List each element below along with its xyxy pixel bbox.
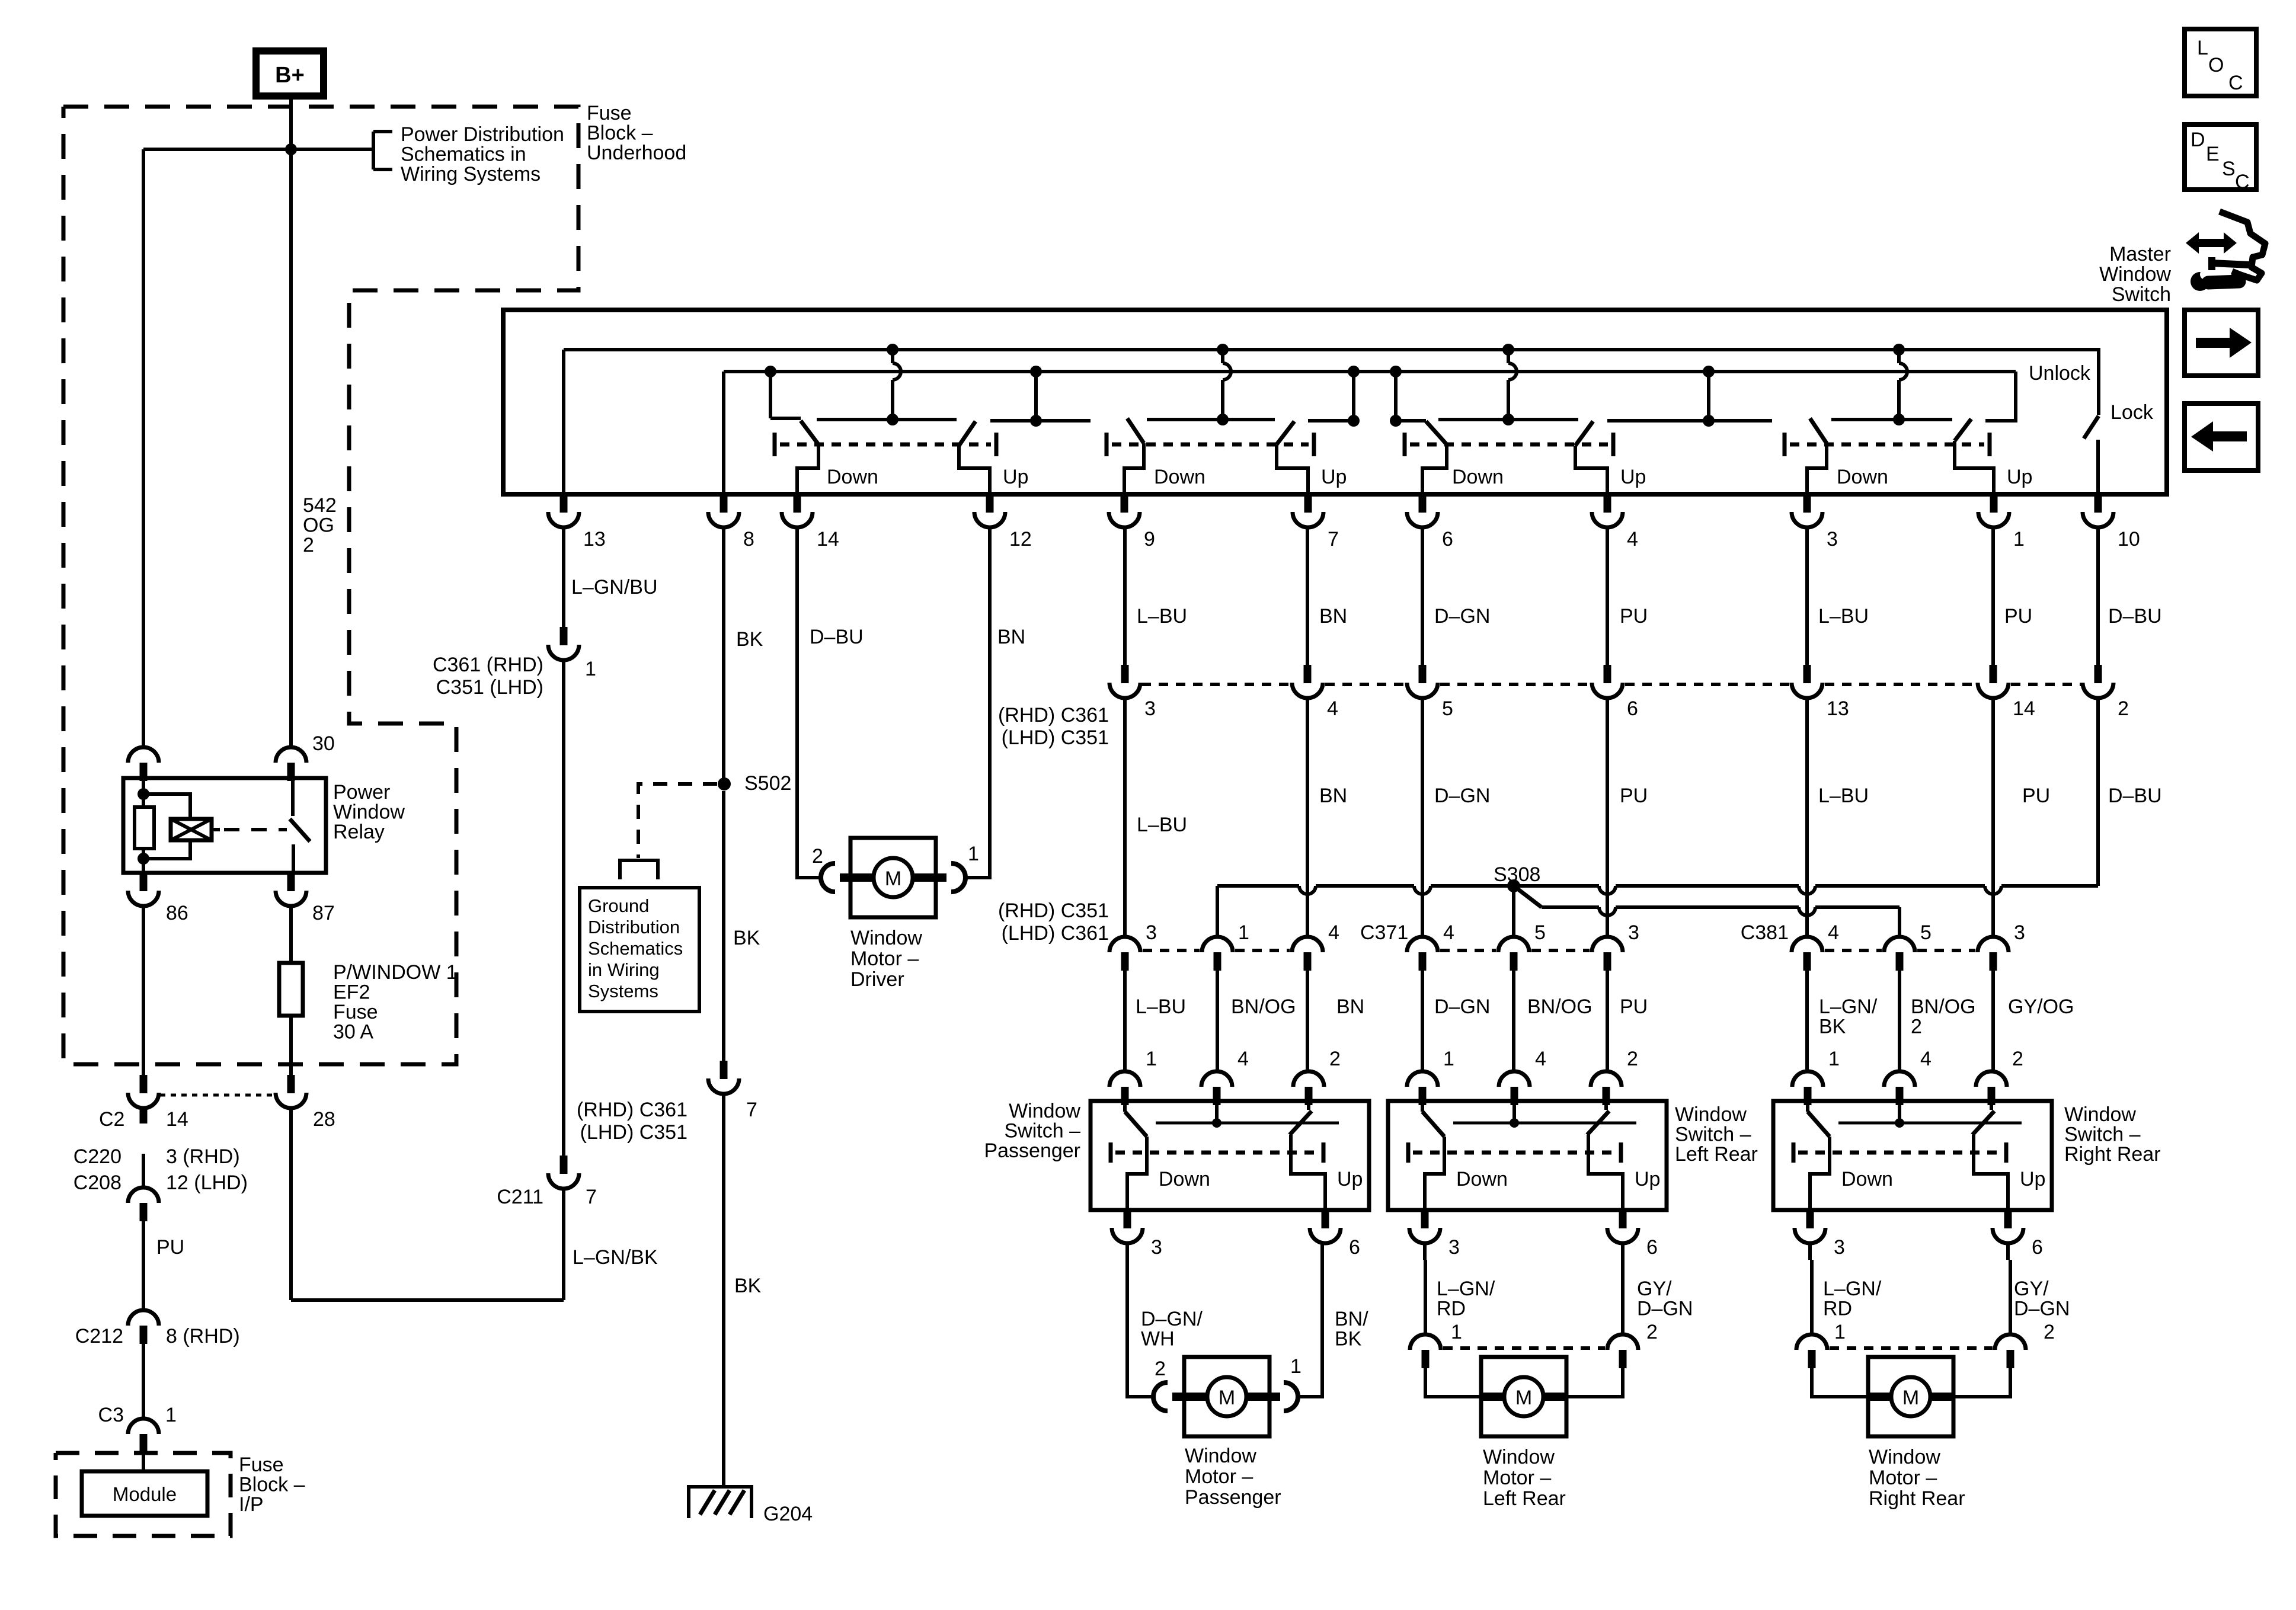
svg-text:PU: PU: [2004, 605, 2032, 628]
svg-text:(RHD) C361: (RHD) C361: [998, 704, 1109, 726]
svg-text:2: 2: [2118, 697, 2129, 720]
svg-text:D–BU: D–BU: [2108, 605, 2162, 628]
switch lock arm: [2084, 416, 2099, 438]
connector master switch pin 7: [1293, 494, 1323, 527]
label switch-in pin 1 at 2400: [1443, 1048, 1454, 1070]
label PU (pin4): [1620, 605, 1648, 628]
svg-text:10: 10: [2118, 528, 2140, 550]
label row3 pin 1 at 2054: [1238, 921, 1249, 944]
labels left rear wires: [1437, 1278, 1693, 1343]
wire pin 86 down: [142, 906, 145, 1075]
svg-text:BK: BK: [733, 927, 760, 949]
svg-text:13: 13: [1827, 697, 1849, 720]
icon right arrow box: [2185, 310, 2258, 376]
wire passenger pin6 to motor: [1297, 1243, 1322, 1397]
wire bus1 left end to pin 13: [562, 350, 565, 494]
label switch-in pin 4 at 2053: [1237, 1048, 1249, 1070]
dashed branch S502 to ground distribution: [638, 784, 717, 858]
svg-text:M: M: [885, 868, 901, 890]
svg-text:D–GN/: D–GN/: [1141, 1308, 1203, 1330]
wire L-BU row2 to row3 (3049): [1805, 698, 1809, 937]
label 1 (passenger motor): [1290, 1355, 1302, 1378]
svg-text:BK: BK: [1819, 1016, 1846, 1038]
svg-text:Distribution: Distribution: [588, 917, 680, 937]
svg-text:G204: G204: [763, 1503, 813, 1525]
svg-text:14: 14: [166, 1108, 188, 1131]
connector row2 pin 6: [1592, 665, 1623, 698]
svg-text:Motor –: Motor –: [1869, 1467, 1937, 1489]
dotted link between C2-14 and 28: [160, 1094, 275, 1097]
wire bus2 riser 3: [1352, 372, 1355, 421]
svg-text:Window: Window: [2099, 263, 2171, 286]
label row2 pin 4: [1327, 697, 1338, 720]
svg-text:6: 6: [1627, 697, 1638, 720]
connector row3 pin 4 at 2400: [1407, 937, 1438, 971]
window motor driver box: [850, 838, 936, 917]
svg-text:6: 6: [1646, 1236, 1658, 1259]
motor window right rear: [1796, 1260, 2026, 1436]
svg-text:Window: Window: [1185, 1445, 1256, 1467]
label C220: [73, 1145, 121, 1168]
wire C211 riser: [562, 1188, 565, 1300]
node bus1 tap 3: [1502, 344, 1514, 356]
label Unlock: [2029, 362, 2091, 385]
svg-text:12: 12: [1009, 528, 1032, 550]
node coil bottom: [137, 853, 149, 865]
svg-text:Up: Up: [1635, 1168, 1660, 1190]
wire row3 to lower row at 2400: [1421, 970, 1424, 1072]
svg-text:L–BU: L–BU: [1818, 785, 1869, 807]
label D-BU 2: [2108, 785, 2162, 807]
wire B+ vertical to pin 30: [289, 149, 293, 748]
wire bus1 riser 2 lower: [1221, 380, 1224, 420]
svg-text:Down: Down: [1837, 466, 1888, 488]
svg-text:86: 86: [166, 902, 188, 924]
bar right-rear mid (bus1 fed): [1831, 414, 1952, 425]
svg-text:PU: PU: [156, 1236, 184, 1259]
switch master left-rear window (Down/Up): [1405, 421, 1646, 494]
label master window switch: [2099, 243, 2171, 306]
label row3 pin 3 at 3363: [2014, 921, 2025, 944]
svg-text:L–BU: L–BU: [1818, 605, 1869, 628]
wire bus2 riser 1: [769, 372, 772, 418]
wire row3 to lower row at 1898: [1123, 970, 1127, 1072]
svg-text:I/P: I/P: [239, 1493, 264, 1516]
label 2 (passenger motor): [1155, 1358, 1166, 1380]
wire master pin to row2 at 2712: [1606, 527, 1609, 665]
svg-text:BN: BN: [1319, 605, 1347, 628]
icon master window switch (arrows and wrench): [2186, 212, 2265, 291]
wire row3 to lower row at 3363: [1991, 970, 1995, 1072]
label (LHD) C361: [1002, 922, 1109, 945]
connector C2 pin 14: [128, 1075, 159, 1108]
label C211: [497, 1186, 543, 1208]
svg-text:13: 13: [583, 528, 606, 550]
svg-text:Down: Down: [1841, 1168, 1893, 1190]
wire row3 to lower row at 2054: [1216, 970, 1219, 1072]
svg-text:D–GN: D–GN: [2014, 1298, 2070, 1320]
svg-text:3: 3: [1448, 1236, 1460, 1259]
connector master switch pin 10: [2083, 494, 2113, 527]
svg-text:Schematics in: Schematics in: [401, 143, 526, 166]
motor window left rear: [1410, 1260, 1638, 1436]
label D-GN (lr): [1434, 996, 1490, 1018]
svg-text:L–GN/BU: L–GN/BU: [571, 576, 658, 598]
svg-text:9: 9: [1144, 528, 1155, 550]
label pin 7: [1328, 528, 1339, 550]
wire hop over bus2 at x=1506: [893, 363, 901, 380]
wire row3 to lower row at 2712: [1606, 970, 1609, 1072]
switch box window switch passenger: [1091, 1101, 1369, 1259]
wire pin10 riser to bus right end: [2096, 697, 2100, 886]
label PU (pin1): [2004, 605, 2032, 628]
wire lock output: [2096, 440, 2100, 494]
label (LHD) C351 row: [580, 1121, 687, 1144]
svg-text:L–GN/BK: L–GN/BK: [573, 1246, 658, 1269]
bar left-rear mid (bus1 fed): [1438, 414, 1578, 425]
label L-GN/BK (rr): [1819, 996, 1878, 1038]
connector row2 pin 13: [1792, 665, 1822, 698]
svg-text:3 (RHD): 3 (RHD): [166, 1145, 240, 1168]
label C381: [1741, 921, 1789, 944]
svg-text:C381: C381: [1741, 921, 1789, 944]
svg-text:Motor –: Motor –: [1185, 1465, 1253, 1488]
battery feed B+ terminal: [256, 51, 324, 96]
connector row2 pin 3: [1109, 665, 1140, 698]
node bus1 tap 4: [1893, 344, 1905, 356]
svg-text:Wiring Systems: Wiring Systems: [401, 163, 541, 185]
svg-text:2: 2: [2012, 1048, 2023, 1070]
bar leftrear-up/rightrear-down fixed: [1607, 415, 1772, 427]
svg-text:Window: Window: [1009, 1100, 1080, 1122]
svg-text:6: 6: [2032, 1236, 2043, 1259]
svg-text:Window: Window: [333, 801, 405, 824]
svg-text:3: 3: [2014, 921, 2025, 944]
wire master pin to row2 at 3540: [2096, 527, 2100, 665]
dashed connector line C381: [1825, 949, 1975, 952]
label BN (pass): [1336, 996, 1364, 1018]
label 7 (C211): [586, 1186, 597, 1208]
svg-text:Master: Master: [2109, 243, 2171, 265]
svg-text:1: 1: [1238, 921, 1249, 944]
node S308: [1507, 879, 1520, 892]
label pin 1: [2013, 528, 2025, 550]
label D-BU: [810, 626, 864, 648]
svg-text:2: 2: [812, 845, 823, 868]
motor driver armature: [840, 858, 946, 897]
svg-text:Left Rear: Left Rear: [1483, 1487, 1566, 1510]
resistor relay coil resistor: [135, 807, 154, 849]
wire bus2 riser 5: [1707, 372, 1710, 421]
connector master switch pin 13: [548, 494, 579, 527]
svg-text:Ground: Ground: [588, 895, 649, 916]
svg-text:Up: Up: [1620, 466, 1646, 488]
wire B+ down to junction: [289, 96, 293, 149]
label 12 (LHD): [166, 1172, 248, 1194]
label L-BU (pass): [1136, 996, 1186, 1018]
svg-text:GY/OG: GY/OG: [2008, 996, 2074, 1018]
svg-text:2: 2: [1646, 1321, 1658, 1343]
connector switch-in pin 4 at 3205: [1884, 1071, 1915, 1105]
connector row3 pin 3 at 3363: [1978, 937, 2009, 971]
label C361 (RHD): [433, 654, 543, 676]
node bus2 tap 1: [765, 366, 776, 377]
wire bus down to row3 pin1 (left end): [1216, 886, 1219, 937]
wire L-BU row2 to row3 (1897): [1123, 698, 1127, 937]
dashed connector line row C351/C361: [1825, 683, 1975, 686]
svg-text:2: 2: [1911, 1016, 1922, 1038]
node bus2 tap 4: [1390, 366, 1402, 377]
svg-text:C: C: [2228, 72, 2243, 94]
wire bus1 riser 4 upper: [1897, 350, 1901, 363]
svg-text:PU: PU: [1620, 996, 1648, 1018]
wire lr pin3 stub: [1423, 1243, 1427, 1260]
svg-text:4: 4: [1828, 921, 1839, 944]
svg-text:PU: PU: [1620, 785, 1648, 807]
wire row3 to lower row at 2206: [1306, 970, 1309, 1072]
bar left-rear down feed: [1390, 415, 1426, 427]
dashed connector line row C351/C361: [2011, 683, 2081, 686]
svg-text:Down: Down: [1456, 1168, 1508, 1190]
label 2 (driver motor): [812, 845, 823, 868]
connector row3 pin 4 at 3049: [1792, 937, 1822, 971]
svg-text:1: 1: [2013, 528, 2025, 550]
wire coil bypass top: [143, 794, 190, 819]
label pin 86: [166, 902, 188, 924]
label BK (pin8): [736, 628, 763, 651]
label window switch right rear: [2064, 1103, 2161, 1166]
svg-text:Block –: Block –: [239, 1474, 305, 1496]
svg-text:12 (LHD): 12 (LHD): [166, 1172, 248, 1194]
svg-text:1: 1: [585, 658, 596, 680]
wire PU segment: [142, 1221, 145, 1311]
label window switch passenger: [984, 1100, 1080, 1162]
wire passenger pin3 to motor: [1127, 1243, 1155, 1397]
label 542 OG 2 wire: [303, 494, 337, 556]
svg-text:7: 7: [586, 1186, 597, 1208]
label 3 (RHD): [166, 1145, 240, 1168]
svg-text:C208: C208: [73, 1172, 121, 1194]
connector row2 pin 2: [2083, 665, 2113, 698]
svg-text:Fuse: Fuse: [333, 1001, 378, 1023]
connector passenger motor terminal 2: [1153, 1382, 1168, 1411]
label S308: [1494, 863, 1540, 886]
svg-text:7: 7: [1328, 528, 1339, 550]
svg-text:Down: Down: [827, 466, 878, 488]
switch master passenger window (Down/Up): [1107, 418, 1347, 494]
label power window relay: [333, 781, 405, 843]
svg-text:Passenger: Passenger: [984, 1140, 1080, 1162]
svg-text:(LHD) C351: (LHD) C351: [1002, 726, 1109, 749]
connector master switch pin 9: [1109, 494, 1140, 527]
wire pin12 down to motor: [964, 527, 990, 878]
label C3: [98, 1404, 124, 1426]
svg-text:Power: Power: [333, 781, 390, 804]
bus S308 horizontal: [1217, 886, 2098, 894]
connector pin 86: [128, 873, 159, 906]
connector pin 87: [276, 873, 306, 906]
label 7 (BK row): [746, 1099, 757, 1121]
svg-text:6: 6: [1349, 1236, 1360, 1259]
wire second bus down to C381 pin5: [1898, 907, 1901, 937]
switch box window switch right rear: [1773, 1101, 2052, 1259]
wire BN row2 to row3 (2206): [1306, 698, 1309, 937]
label pin 87: [312, 902, 335, 924]
svg-text:Fuse: Fuse: [587, 102, 632, 124]
wire coil bottom: [142, 849, 145, 873]
svg-text:2: 2: [303, 534, 314, 556]
ground distribution box: [580, 888, 699, 1012]
wire row3 to lower row at 3049: [1805, 970, 1809, 1072]
label PU 2 (3363): [2022, 785, 2050, 807]
label pin 10: [2118, 528, 2140, 550]
connector C220/C208: [128, 1188, 159, 1221]
connector switch-in pin 1 at 1898: [1109, 1071, 1140, 1105]
connector master switch pin 3: [1792, 494, 1822, 527]
switch master driver window (Down/Up): [775, 421, 1028, 494]
label row3 pin 5 at 3205: [1920, 921, 1932, 944]
wire D-GN row2 to row3 (2400): [1421, 698, 1424, 937]
bus wire lower (bus2): [724, 370, 2016, 373]
svg-text:P/WINDOW 1: P/WINDOW 1: [333, 961, 458, 984]
label BN (pin12): [997, 626, 1025, 648]
node bus1 tap 1: [887, 344, 898, 356]
svg-text:4: 4: [1443, 921, 1454, 944]
wire bus2 left end to pin 8: [722, 372, 725, 494]
label pin 3: [1827, 528, 1838, 550]
bracket for power distribution note: [373, 132, 392, 169]
wire C3 into module: [142, 1452, 145, 1471]
label 1: [165, 1404, 177, 1426]
svg-text:1: 1: [1146, 1048, 1157, 1070]
fuse P/WINDOW 1 EF2 30A: [279, 963, 303, 1016]
label BN 2: [1319, 785, 1347, 807]
connector master switch pin 14: [782, 494, 813, 527]
svg-text:C220: C220: [73, 1145, 121, 1168]
svg-text:30 A: 30 A: [333, 1021, 373, 1044]
svg-text:5: 5: [1920, 921, 1932, 944]
wire PU row2 to row3 (3363): [1991, 698, 1995, 937]
connector row3 pin 1 at 2054: [1202, 937, 1233, 971]
connector C211 pin 7: [548, 1156, 579, 1189]
svg-text:2: 2: [1155, 1358, 1166, 1380]
wire left branch horizontal: [143, 148, 291, 151]
label pin 9: [1144, 528, 1155, 550]
svg-text:BK: BK: [736, 628, 763, 651]
svg-text:BN: BN: [1336, 996, 1364, 1018]
wire bus1 riser 3 upper: [1507, 350, 1510, 363]
svg-text:Down: Down: [1159, 1168, 1210, 1190]
wire row3 to lower row at 2554: [1512, 970, 1515, 1072]
wire hop over bus2 at x=2063: [1223, 363, 1231, 380]
wire coil to link stub: [212, 828, 220, 831]
label switch-in pin 1 at 1898: [1146, 1048, 1157, 1070]
svg-text:Motor –: Motor –: [850, 948, 919, 970]
connector row3 pin 4 at 2206: [1292, 937, 1323, 971]
wire coil bypass bottom: [143, 840, 190, 859]
node S502 splice: [718, 777, 731, 790]
label (RHD) C351: [998, 900, 1109, 922]
svg-text:Switch: Switch: [2112, 283, 2171, 306]
wire BK to ground: [722, 1094, 725, 1487]
svg-text:14: 14: [2013, 697, 2035, 720]
connector master switch pin 1: [1978, 494, 2009, 527]
bar driver mid (bus1 fed): [817, 414, 957, 425]
svg-text:Window: Window: [1675, 1103, 1747, 1126]
label row3 pin 3 at 2712: [1628, 921, 1639, 944]
label row3 pin 4 at 2400: [1443, 921, 1454, 944]
svg-text:BN/OG: BN/OG: [1911, 996, 1976, 1018]
relay solenoid coil box with X: [171, 819, 212, 840]
svg-text:542: 542: [303, 494, 337, 517]
svg-text:7: 7: [746, 1099, 757, 1121]
node junction at power-distribution tap: [285, 143, 297, 155]
svg-text:(RHD) C351: (RHD) C351: [998, 900, 1109, 922]
label BN/OG (pass): [1231, 996, 1296, 1018]
connector C3 pin 1: [128, 1419, 159, 1452]
bus S308 second horizontal: [1542, 907, 1900, 916]
wire bus1 riser 2 upper: [1221, 350, 1224, 363]
label D-GN (pin6): [1434, 605, 1490, 628]
svg-text:GY/: GY/: [1637, 1278, 1672, 1300]
label switch-in pin 2 at 2208: [1329, 1048, 1341, 1070]
svg-text:4: 4: [1627, 528, 1638, 550]
wire master pin to row2 at 3049: [1805, 527, 1809, 665]
svg-text:Module: Module: [113, 1483, 177, 1505]
svg-text:Relay: Relay: [333, 821, 385, 843]
wire master pin to row2 at 2206: [1306, 527, 1309, 665]
wire relay output to pin 87: [292, 844, 295, 873]
label (LHD) C351 mid: [1002, 726, 1109, 749]
svg-text:L: L: [2197, 37, 2208, 59]
wire segment to C220: [142, 1154, 145, 1188]
connector pin 28: [276, 1075, 306, 1108]
label GY/OG (rr): [2008, 996, 2074, 1018]
svg-text:L–GN/: L–GN/: [1819, 996, 1878, 1018]
wire bus1 riser 4 lower: [1897, 380, 1901, 420]
svg-text:D–BU: D–BU: [810, 626, 864, 648]
window motor passenger box: [1184, 1357, 1269, 1436]
connector switch-in pin 2 at 2710: [1591, 1071, 1622, 1105]
connector driver motor terminal 1: [951, 863, 965, 892]
wire bus1 riser 1 lower: [891, 380, 894, 420]
svg-text:RD: RD: [1823, 1298, 1852, 1320]
svg-text:1: 1: [1828, 1048, 1840, 1070]
label Module: [113, 1483, 177, 1505]
label row2 pin 14: [2013, 697, 2035, 720]
relay switch arm: [290, 819, 310, 841]
wire to C3: [142, 1343, 145, 1419]
wire PU row2 to row3 (2712): [1606, 698, 1609, 937]
bar passenger mid (bus1 fed): [1147, 414, 1275, 425]
svg-text:Up: Up: [2007, 466, 2032, 488]
svg-text:Window: Window: [2064, 1103, 2136, 1126]
svg-text:5: 5: [1534, 921, 1546, 944]
svg-text:C2: C2: [99, 1108, 124, 1131]
svg-text:Passenger: Passenger: [1185, 1486, 1281, 1509]
wire fuse down: [289, 1016, 293, 1075]
svg-text:BN: BN: [997, 626, 1025, 648]
svg-text:Driver: Driver: [850, 968, 904, 991]
svg-text:WH: WH: [1141, 1328, 1175, 1350]
connector switch-in pin 2 at 2208: [1293, 1071, 1324, 1105]
label C371: [1360, 921, 1408, 944]
wire hop over bus2 at x=3204: [1899, 363, 1907, 380]
bus wire upper (bus1): [564, 348, 2099, 351]
label 28: [313, 1108, 335, 1131]
svg-text:D–BU: D–BU: [2108, 785, 2162, 807]
svg-text:C371: C371: [1360, 921, 1408, 944]
